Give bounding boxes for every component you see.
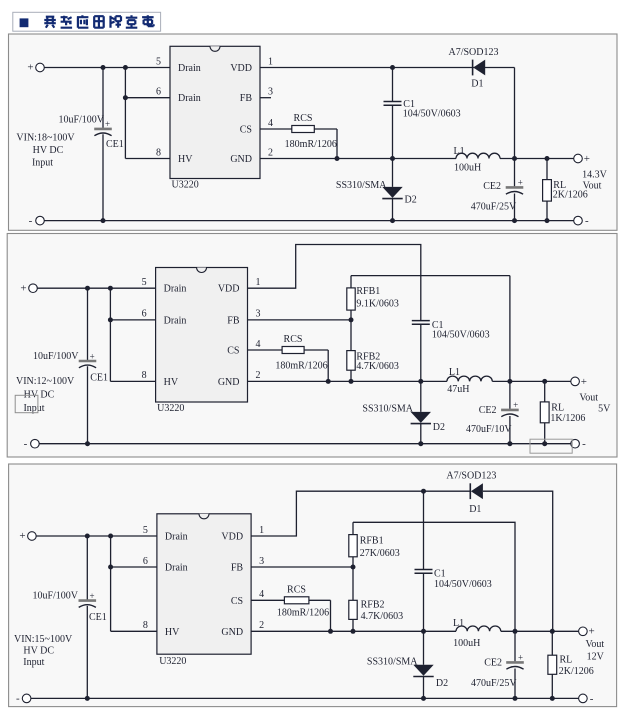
wire: C1 leads (panel 3) — [423, 491, 425, 631]
svg-text:1: 1 — [268, 56, 273, 67]
title box — [13, 12, 161, 31]
svg-text:5: 5 — [142, 277, 147, 288]
svg-text:2: 2 — [259, 620, 264, 631]
wire: VDD up and over through D1 to output (panel 3) — [251, 491, 553, 631]
svg-text:+: + — [20, 282, 26, 294]
junction: RL bottom (panel 2) — [542, 441, 547, 446]
svg-text:D1: D1 — [471, 79, 483, 90]
svg-text:-: - — [582, 438, 586, 450]
wire: VDD up and over to C1 (panel 2) — [248, 245, 421, 321]
junction: RL bottom (panel 3) — [550, 696, 555, 701]
resistor RFB1 9.1K (panel 2) — [347, 288, 355, 310]
svg-text:D1: D1 — [469, 504, 481, 515]
svg-text:Input: Input — [32, 158, 53, 169]
svg-text:+: + — [105, 119, 110, 129]
capacitor C1 104/50V (panel 1) — [384, 102, 402, 106]
svg-text:Input: Input — [23, 403, 44, 414]
junction: C1 / D2 on switch node (panel 2) — [418, 379, 423, 384]
wire: D2 leads (panel 3) — [423, 631, 425, 698]
svg-text:2: 2 — [256, 370, 261, 381]
svg-text:RFB1: RFB1 — [356, 286, 380, 297]
junction: CE1 top (panel 2) — [85, 286, 90, 291]
panel 1 frame (18~100V input, 14.3V output) — [9, 34, 618, 230]
wire: CE2 leads — [514, 159, 516, 221]
svg-text:180mR/1206: 180mR/1206 — [275, 360, 327, 371]
input + terminal (panel 1) — [36, 63, 45, 72]
svg-text:14.3V: 14.3V — [582, 169, 608, 180]
svg-text:CE2: CE2 — [483, 181, 501, 192]
svg-text:VIN:18~100V: VIN:18~100V — [16, 133, 75, 144]
wire: branch to pins 6 and 8 (panel 2) — [110, 288, 155, 381]
output - terminal (panel 1) — [574, 216, 583, 225]
svg-text:+: + — [584, 153, 590, 165]
inductor L1 100uH (panel 1) — [456, 153, 500, 158]
resistor RFB2 4.7K (panel 3) — [349, 600, 357, 619]
input - terminal (panel 1) — [36, 216, 45, 225]
svg-text:HV DC: HV DC — [33, 145, 64, 156]
junction: CE1 bottom (panel 2) — [85, 441, 90, 446]
svg-text:VIN:12~100V: VIN:12~100V — [16, 376, 75, 387]
output + terminal (panel 3) — [579, 627, 588, 636]
wire: CE2 leads (panel 2) — [509, 381, 511, 443]
junction: C1 top tap — [390, 65, 395, 70]
svg-text:470uF/25V: 470uF/25V — [471, 678, 517, 689]
wire: CS to RCS (panel 3) — [251, 600, 330, 631]
wire: D2 leads (panel 2) — [420, 381, 422, 443]
svg-text:U3220: U3220 — [157, 403, 184, 414]
svg-text:VDD: VDD — [221, 532, 243, 543]
junction: RFB2 bottom on GND net — [349, 379, 354, 384]
junction: pin 6 branch (panel 3) — [108, 565, 113, 570]
wire: RFB1 leads (panel 3) — [352, 522, 354, 567]
svg-text:L1: L1 — [453, 618, 464, 629]
wire: bottom return rail (panel 1) — [44, 220, 573, 222]
svg-text:10uF/100V: 10uF/100V — [32, 590, 78, 601]
junction: C1 / D2 on switch node — [390, 156, 395, 161]
svg-text:A7/SOD123: A7/SOD123 — [448, 47, 498, 58]
resistor RL 2K/1206 (panel 3) — [548, 655, 557, 674]
svg-text:Drain: Drain — [164, 284, 187, 295]
svg-text:Vout: Vout — [585, 639, 604, 650]
junction: output node / CE2 top (panel 2) — [507, 379, 512, 384]
wire: CE1 leads — [102, 68, 104, 221]
capacitor CE2 470uF/10V (panel 2) — [501, 410, 519, 417]
wire: switch node / output rail (panel 1) — [260, 158, 574, 160]
input - terminal (panel 2) — [31, 439, 40, 448]
junction: RL top (panel 2) — [542, 379, 547, 384]
wire: RFB2 leads (panel 3) — [352, 567, 354, 631]
wire: D2 leads — [392, 159, 394, 221]
output - terminal (panel 3) — [579, 694, 588, 703]
input + terminal (panel 3) — [28, 532, 37, 541]
svg-text:Drain: Drain — [165, 532, 188, 543]
svg-text:180mR/1206: 180mR/1206 — [277, 608, 329, 619]
svg-text:+: + — [27, 62, 33, 74]
inductor L1 47uH (panel 2) — [447, 376, 492, 381]
wire: CE2 leads (panel 3) — [514, 631, 516, 698]
svg-text:6: 6 — [156, 87, 161, 98]
title bullet square — [20, 18, 29, 27]
wire: feedback tap to output node (panel 3) — [353, 522, 515, 631]
wire: FB to divider (panel 3) — [251, 566, 353, 568]
junction: RCS return (panel 3) — [328, 629, 333, 634]
diode D2 SS310/SMA (panel 1) — [382, 187, 402, 199]
svg-text:104/50V/0603: 104/50V/0603 — [432, 329, 490, 340]
wire: C1 bottom lead (panel 2) — [420, 324, 422, 381]
svg-text:L1: L1 — [449, 367, 460, 378]
junction: output node / CE2 top (panel 3) — [513, 629, 518, 634]
svg-text:CE2: CE2 — [484, 657, 502, 668]
resistor RL 2K/1206 (panel 1) — [543, 180, 552, 202]
svg-text:1: 1 — [259, 525, 264, 536]
svg-text:FB: FB — [227, 315, 240, 326]
svg-text:D2: D2 — [436, 678, 448, 689]
input - terminal (panel 3) — [22, 694, 31, 703]
svg-text:Drain: Drain — [178, 93, 201, 104]
resistor RCS 180mR (panel 2) — [282, 347, 304, 354]
wire: CS to RCS and down to GND net — [260, 129, 337, 159]
svg-text:CE1: CE1 — [90, 373, 108, 384]
svg-text:2K/1206: 2K/1206 — [559, 666, 594, 677]
junction: D2 anode (panel 3) — [421, 696, 426, 701]
junction: CE2 bottom (panel 2) — [507, 441, 512, 446]
svg-text:+: + — [89, 591, 94, 601]
svg-text:+: + — [513, 400, 518, 410]
svg-text:C1: C1 — [434, 568, 446, 579]
svg-text:CS: CS — [227, 346, 239, 357]
svg-text:-: - — [24, 438, 28, 450]
svg-text:100uH: 100uH — [454, 162, 481, 173]
svg-text:CS: CS — [240, 125, 252, 136]
svg-text:GND: GND — [221, 627, 243, 638]
junction: RL top (panel 3) — [550, 629, 555, 634]
capacitor CE1 10uF/100V (panel 2) — [79, 361, 97, 368]
resistor RFB2 4.7K (panel 2) — [347, 351, 355, 371]
svg-text:RFB1: RFB1 — [360, 536, 384, 547]
svg-text:Vout: Vout — [583, 181, 602, 192]
svg-text:SS310/SMA: SS310/SMA — [367, 657, 418, 668]
junction: HV branch top (panel 2) — [108, 286, 113, 291]
svg-text:-: - — [590, 693, 594, 705]
panel 2 frame (12~100V input, 5V output) — [7, 234, 617, 458]
svg-text:Drain: Drain — [178, 63, 201, 74]
capacitor CE2 470uF/25V (panel 1) — [506, 187, 524, 194]
capacitor C1 104/50V (panel 2) — [412, 321, 430, 325]
svg-text:Input: Input — [23, 657, 44, 668]
svg-text:GND: GND — [230, 154, 252, 165]
wire: switch node / output rail (panel 2) — [248, 380, 571, 382]
svg-text:CE1: CE1 — [106, 139, 124, 150]
junction: FB divider tap — [349, 317, 354, 322]
inductor L1 100uH (panel 3) — [456, 626, 501, 631]
svg-text:CS: CS — [231, 596, 243, 607]
wire: branch to pins 6 and 8 (panel 3) — [111, 536, 157, 631]
wire: bottom return rail (panel 2) — [39, 443, 570, 445]
op IC U3220 (panel 1) — [170, 46, 260, 178]
svg-text:HV: HV — [164, 377, 179, 388]
svg-text:3: 3 — [259, 556, 264, 567]
junction: CE2 bottom (panel 3) — [513, 696, 518, 701]
diode D1 A7/SOD123 (panel 1) — [473, 60, 486, 76]
svg-text:+: + — [90, 351, 95, 361]
wire: feedback tap drop (panel 2) — [509, 276, 511, 382]
svg-text:SS310/SMA: SS310/SMA — [362, 404, 413, 415]
stray editing rectangle near output - terminal — [530, 439, 572, 453]
svg-text:U3220: U3220 — [172, 180, 199, 191]
svg-text:RL: RL — [560, 655, 573, 666]
title text 典型应用降压电 (drawn glyphs) — [44, 15, 153, 28]
wire: input + rail to pin 5 — [44, 67, 170, 69]
svg-text:+: + — [518, 177, 523, 187]
junction: RCS return on GND net — [335, 156, 340, 161]
stray editing rectangle over HV DC Input — [15, 395, 38, 412]
svg-text:3: 3 — [256, 309, 261, 320]
diode D2 SS310/SMA (panel 3) — [413, 665, 433, 677]
svg-text:HV: HV — [178, 154, 193, 165]
junction: HV branch top (panel 3) — [108, 534, 113, 539]
svg-text:10uF/100V: 10uF/100V — [58, 115, 104, 126]
junction: RCS return (panel 2) — [326, 379, 331, 384]
svg-text:CE2: CE2 — [479, 405, 497, 416]
svg-text:VDD: VDD — [230, 63, 252, 74]
svg-text:RCS: RCS — [287, 585, 306, 596]
svg-text:RFB2: RFB2 — [361, 600, 385, 611]
wire: RFB1 leads — [350, 276, 352, 320]
junction: CE1 top (panel 3) — [85, 534, 90, 539]
resistor RFB1 27K (panel 3) — [349, 535, 357, 557]
junction: RL top — [545, 156, 550, 161]
svg-text:HV DC: HV DC — [23, 646, 54, 657]
wire: input + rail to pin 5 (panel 3) — [36, 535, 157, 537]
junction: C1 top tap (panel 3) — [421, 489, 426, 494]
svg-text:8: 8 — [143, 620, 148, 631]
junction: CE2 bottom — [512, 218, 517, 223]
svg-text:Drain: Drain — [164, 315, 187, 326]
svg-text:FB: FB — [231, 563, 244, 574]
svg-text:L1: L1 — [454, 146, 465, 157]
wire: RL leads — [546, 159, 548, 221]
junction: CE1 top — [101, 65, 106, 70]
svg-text:2: 2 — [268, 147, 273, 158]
capacitor CE1 10uF/100V (panel 1) — [94, 129, 112, 136]
svg-text:104/50V/0603: 104/50V/0603 — [403, 109, 461, 120]
junction: RL bottom — [545, 218, 550, 223]
resistor RCS 180mR (panel 3) — [284, 597, 309, 604]
junction: D2 anode (panel 2) — [418, 441, 423, 446]
wire: switch node / output rail (panel 3) — [251, 630, 578, 632]
svg-text:FB: FB — [240, 93, 253, 104]
junction: C1 / D2 on switch node (panel 3) — [421, 629, 426, 634]
panel 3 frame (15~100V input, 12V output) — [9, 464, 617, 707]
svg-text:+: + — [518, 652, 523, 662]
svg-text:Vout: Vout — [579, 393, 598, 404]
svg-text:VIN:15~100V: VIN:15~100V — [14, 634, 73, 645]
output - terminal (panel 2) — [571, 439, 580, 448]
svg-text:27K/0603: 27K/0603 — [360, 548, 400, 559]
svg-text:8: 8 — [156, 147, 161, 158]
junction: RFB2 bottom (panel 3) — [351, 629, 356, 634]
wire: feedback tap to output (panel 2) — [351, 275, 510, 277]
wire: RFB2 leads — [350, 320, 352, 382]
svg-text:D2: D2 — [433, 422, 445, 433]
svg-text:6: 6 — [142, 309, 147, 320]
svg-text:4: 4 — [268, 118, 273, 129]
svg-text:4: 4 — [259, 589, 264, 600]
svg-text:U3220: U3220 — [159, 656, 186, 667]
capacitor C1 104/50V (panel 3) — [415, 570, 433, 574]
wire: bottom return rail (panel 3) — [31, 697, 578, 699]
input + terminal (panel 2) — [29, 284, 38, 293]
svg-text:104/50V/0603: 104/50V/0603 — [434, 579, 492, 590]
junction: CE1 bottom — [101, 218, 106, 223]
svg-text:1: 1 — [256, 277, 261, 288]
svg-text:+: + — [588, 626, 594, 638]
junction: pin 6 branch — [123, 95, 128, 100]
svg-text:SS310/SMA: SS310/SMA — [336, 180, 387, 191]
diode D2 SS310/SMA (panel 2) — [411, 412, 431, 424]
svg-text:5V: 5V — [598, 404, 611, 415]
output + terminal (panel 2) — [571, 377, 580, 386]
op IC U3220 (panel 2) — [156, 268, 248, 403]
svg-text:4.7K/0603: 4.7K/0603 — [356, 361, 399, 372]
svg-text:CE1: CE1 — [89, 612, 107, 623]
svg-text:+: + — [19, 530, 25, 542]
svg-text:-: - — [585, 215, 589, 227]
svg-text:4.7K/0603: 4.7K/0603 — [361, 611, 404, 622]
svg-text:RCS: RCS — [294, 113, 313, 124]
svg-text:5: 5 — [156, 56, 161, 67]
svg-text:47uH: 47uH — [447, 384, 469, 395]
svg-text:HV: HV — [165, 627, 180, 638]
wire: FB to divider (panel 2) — [248, 319, 352, 321]
svg-text:470uF/10V: 470uF/10V — [466, 424, 512, 435]
svg-text:6: 6 — [143, 556, 148, 567]
wire: RL leads (panel 3) — [551, 631, 553, 698]
op IC U3220 (panel 3) — [157, 514, 251, 654]
output + terminal (panel 1) — [574, 154, 583, 163]
svg-text:100uH: 100uH — [453, 638, 480, 649]
svg-text:-: - — [16, 693, 20, 705]
wire: input + rail to pin 5 (panel 2) — [37, 287, 155, 289]
svg-text:8: 8 — [142, 370, 147, 381]
wire: CE1 leads (panel 2) — [87, 288, 89, 444]
wire: RL leads (panel 2) — [544, 381, 546, 443]
svg-text:180mR/1206: 180mR/1206 — [285, 139, 337, 150]
resistor RCS 180mR (panel 1) — [292, 126, 315, 133]
svg-text:4: 4 — [256, 339, 261, 350]
wire: C1 leads — [392, 68, 394, 159]
capacitor CE1 10uF/100V (panel 3) — [79, 601, 97, 608]
wire: FB stub (pin 3) — [260, 97, 271, 99]
svg-text:470uF/25V: 470uF/25V — [471, 202, 517, 213]
svg-text:12V: 12V — [587, 652, 605, 663]
wire: CE1 leads (panel 3) — [86, 536, 88, 698]
svg-text:-: - — [29, 215, 33, 227]
svg-text:Drain: Drain — [165, 563, 188, 574]
svg-text:3: 3 — [268, 87, 273, 98]
svg-text:D2: D2 — [405, 194, 417, 205]
svg-text:GND: GND — [218, 377, 240, 388]
svg-text:VDD: VDD — [218, 284, 240, 295]
svg-text:9.1K/0603: 9.1K/0603 — [356, 299, 399, 310]
junction: CE1 bottom (panel 3) — [85, 696, 90, 701]
wire: VDD net with drop to output node — [260, 68, 515, 159]
junction: D2 anode on return rail — [390, 218, 395, 223]
junction: output node / CE2 top — [512, 156, 517, 161]
svg-text:10uF/100V: 10uF/100V — [33, 351, 79, 362]
svg-text:1K/1206: 1K/1206 — [550, 413, 585, 424]
svg-text:+: + — [581, 376, 587, 388]
resistor RL 1K/1206 (panel 2) — [540, 402, 549, 423]
wire: branch to pins 6 and 8 — [125, 68, 170, 159]
junction: pin 6 branch (panel 2) — [108, 317, 113, 322]
junction: FB divider tap (panel 3) — [351, 565, 356, 570]
svg-text:5: 5 — [143, 525, 148, 536]
svg-text:A7/SOD123: A7/SOD123 — [446, 471, 496, 482]
wire: CS to RCS (panel 2) — [248, 350, 329, 381]
junction: HV branch top — [123, 65, 128, 70]
diode D1 A7/SOD123 (panel 3) — [470, 483, 483, 499]
capacitor CE2 470uF/25V (panel 3) — [506, 662, 524, 669]
svg-text:RCS: RCS — [284, 334, 303, 345]
